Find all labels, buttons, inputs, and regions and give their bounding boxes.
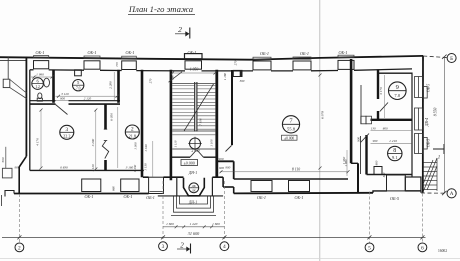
- svg-text:ДН-1: ДН-1: [188, 171, 197, 175]
- svg-text:8 110: 8 110: [292, 167, 300, 171]
- svg-text:ОБ-1: ОБ-1: [146, 195, 155, 200]
- svg-text:±0.000: ±0.000: [184, 160, 195, 165]
- svg-text:2 280: 2 280: [109, 81, 113, 89]
- svg-text:860: 860: [112, 186, 116, 191]
- svg-text:ОБ-1: ОБ-1: [339, 50, 348, 55]
- svg-text:1 180: 1 180: [223, 73, 227, 81]
- svg-text:7 930: 7 930: [199, 118, 203, 126]
- svg-text:ОБ-5: ОБ-5: [426, 139, 431, 148]
- svg-text:1 100: 1 100: [209, 139, 213, 147]
- svg-text:3: 3: [162, 244, 165, 250]
- svg-text:6 970: 6 970: [321, 111, 325, 119]
- svg-text:ОБ-1: ОБ-1: [126, 50, 135, 55]
- svg-text:900: 900: [60, 96, 65, 100]
- svg-text:8 550: 8 550: [433, 108, 437, 117]
- svg-text:1 950: 1 950: [190, 68, 199, 72]
- svg-text:3: 3: [65, 127, 68, 133]
- svg-text:ОБ-1: ОБ-1: [300, 51, 309, 56]
- svg-text:5: 5: [368, 245, 371, 251]
- svg-text:270: 270: [149, 78, 153, 83]
- svg-text:900: 900: [373, 139, 378, 143]
- svg-text:3 200: 3 200: [91, 138, 95, 146]
- svg-text:А: А: [450, 191, 454, 197]
- svg-text:21.8: 21.8: [129, 133, 136, 138]
- svg-text:270: 270: [234, 60, 238, 65]
- svg-text:9: 9: [396, 84, 399, 91]
- svg-text:900: 900: [14, 166, 19, 170]
- svg-text:2: 2: [180, 242, 184, 250]
- svg-text:6 050: 6 050: [110, 113, 114, 121]
- svg-text:1 980: 1 980: [344, 159, 348, 167]
- svg-text:ОБ-1: ОБ-1: [260, 51, 269, 56]
- svg-text:9.1: 9.1: [392, 155, 398, 160]
- svg-text:180: 180: [171, 75, 175, 80]
- svg-text:ОБ-1: ОБ-1: [36, 50, 45, 55]
- svg-text:500: 500: [1, 157, 5, 162]
- svg-text:Б: Б: [450, 56, 453, 62]
- svg-text:2: 2: [18, 245, 21, 251]
- svg-text:7.0: 7.0: [394, 93, 400, 98]
- svg-text:900: 900: [357, 137, 361, 142]
- svg-text:360: 360: [240, 79, 245, 83]
- svg-text:ОБ-5: ОБ-5: [426, 84, 431, 93]
- svg-text:2: 2: [131, 127, 134, 133]
- svg-text:ОБ-1: ОБ-1: [188, 50, 197, 55]
- svg-text:1 990: 1 990: [36, 73, 44, 77]
- svg-text:735: 735: [115, 62, 119, 67]
- svg-text:ОБ-1: ОБ-1: [257, 195, 266, 200]
- svg-text:1 130: 1 130: [144, 163, 148, 171]
- svg-text:6: 6: [421, 245, 424, 251]
- svg-text:860: 860: [375, 160, 379, 165]
- svg-text:130: 130: [371, 126, 376, 130]
- svg-text:ОБ-1: ОБ-1: [85, 194, 94, 199]
- svg-text:1 600: 1 600: [212, 222, 220, 226]
- svg-text:1 360: 1 360: [134, 142, 138, 150]
- svg-text:ОБ-1: ОБ-1: [88, 50, 97, 55]
- svg-text:ДН-1: ДН-1: [188, 201, 197, 205]
- svg-text:ОБ-1: ОБ-1: [295, 195, 304, 200]
- svg-text:1 210: 1 210: [389, 139, 397, 143]
- svg-text:План 1-го этажа: План 1-го этажа: [128, 4, 193, 14]
- svg-text:900: 900: [219, 166, 224, 170]
- svg-text:1: 1: [438, 156, 441, 161]
- svg-text:±0.000: ±0.000: [284, 136, 294, 140]
- svg-text:55.8: 55.8: [287, 127, 296, 132]
- svg-text:6 830: 6 830: [60, 166, 68, 170]
- svg-text:800: 800: [383, 126, 388, 130]
- svg-text:31 600: 31 600: [188, 231, 200, 236]
- svg-text:900: 900: [225, 165, 230, 169]
- svg-text:ОБ-1: ОБ-1: [124, 194, 133, 199]
- svg-text:1.2: 1.2: [35, 85, 40, 89]
- svg-text:1 220: 1 220: [190, 222, 198, 226]
- svg-text:1 600: 1 600: [166, 222, 174, 226]
- svg-text:4: 4: [223, 244, 226, 250]
- svg-text:1 340: 1 340: [144, 144, 148, 152]
- svg-text:900: 900: [219, 157, 224, 161]
- svg-text:3 170: 3 170: [379, 87, 383, 95]
- svg-text:16002: 16002: [438, 249, 447, 253]
- svg-text:ДВ-4: ДВ-4: [424, 118, 429, 127]
- svg-text:1 120: 1 120: [91, 164, 95, 172]
- svg-text:8: 8: [393, 148, 396, 154]
- svg-text:22.2: 22.2: [63, 134, 70, 139]
- svg-text:4 170: 4 170: [36, 138, 40, 146]
- svg-text:2: 2: [178, 25, 182, 34]
- svg-text:2 120: 2 120: [84, 96, 92, 100]
- svg-text:7.0: 7.0: [76, 86, 81, 90]
- svg-text:ОБ-5: ОБ-5: [390, 196, 399, 201]
- svg-text:1 130: 1 130: [133, 164, 137, 172]
- svg-text:1 110: 1 110: [173, 140, 177, 147]
